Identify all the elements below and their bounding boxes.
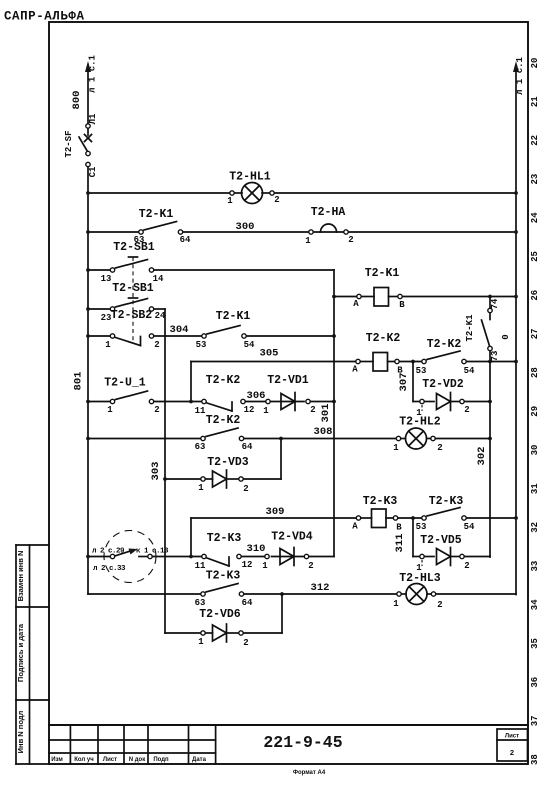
svg-text:2: 2 bbox=[274, 195, 279, 205]
contact T2-K2 11-12 (break) bbox=[195, 374, 255, 416]
svg-text:2: 2 bbox=[464, 405, 469, 415]
svg-text:301: 301 bbox=[320, 404, 332, 423]
row: button T2-SB2 1-2, wire 304, contact T2-K1 53-54 bbox=[86, 334, 336, 338]
svg-text:2: 2 bbox=[154, 340, 159, 350]
svg-text:33: 33 bbox=[530, 561, 540, 572]
svg-text:T2-K2: T2-K2 bbox=[427, 338, 462, 351]
svg-text:T2-HL1: T2-HL1 bbox=[229, 171, 271, 184]
svg-text:23: 23 bbox=[530, 174, 540, 185]
svg-text:312: 312 bbox=[311, 582, 330, 594]
svg-text:37: 37 bbox=[530, 715, 540, 726]
left margin attribute column boxes bbox=[16, 545, 49, 764]
svg-text:A: A bbox=[352, 365, 358, 375]
svg-text:T2-HA: T2-HA bbox=[311, 206, 346, 219]
title block grid bbox=[49, 725, 528, 764]
svg-text:74: 74 bbox=[490, 298, 500, 309]
svg-text:T2-K1: T2-K1 bbox=[465, 314, 475, 342]
svg-text:29: 29 bbox=[530, 406, 540, 417]
svg-text:B: B bbox=[396, 523, 402, 533]
svg-text:1: 1 bbox=[305, 236, 311, 246]
svg-text:306: 306 bbox=[247, 390, 266, 402]
lamp T2-HL3 bbox=[393, 572, 442, 610]
connector pin к 1 с.13 bbox=[148, 554, 152, 558]
svg-text:л 2 с.33: л 2 с.33 bbox=[93, 565, 126, 573]
svg-text:1: 1 bbox=[393, 599, 399, 609]
svg-text:64: 64 bbox=[180, 235, 191, 245]
row: contact T2-K2 63-64, wire 308, lamp T2-HL2 bbox=[86, 437, 490, 441]
svg-text:35: 35 bbox=[530, 638, 540, 649]
node 301 vertical wire bbox=[309, 270, 336, 557]
svg-text:T2-VD4: T2-VD4 bbox=[271, 531, 313, 544]
contact T2-K2 63-64 bbox=[195, 414, 253, 452]
wire 307 vertical bbox=[398, 362, 413, 402]
row: diode T2-VD3 bypass bbox=[165, 439, 281, 480]
svg-text:800: 800 bbox=[71, 91, 83, 110]
row: relay coil T2-K2 with wire 305 and contact T2-K2 53-54 bbox=[191, 360, 518, 364]
svg-text:54: 54 bbox=[464, 522, 475, 532]
svg-text:л 1 с.1: л 1 с.1 bbox=[88, 55, 98, 93]
svg-text:T2-U_1: T2-U_1 bbox=[104, 377, 146, 390]
contact T2-K2 53-54 bbox=[416, 338, 475, 376]
svg-text:305: 305 bbox=[260, 348, 279, 360]
relay coil T2-K3 bbox=[352, 495, 402, 533]
svg-text:1: 1 bbox=[105, 340, 111, 350]
svg-text:34: 34 bbox=[530, 599, 540, 610]
contact T2-K1 53-54 bbox=[196, 310, 255, 350]
svg-text:A: A bbox=[352, 522, 358, 532]
svg-text:T2-SB1: T2-SB1 bbox=[113, 241, 155, 254]
svg-text:11: 11 bbox=[195, 406, 206, 416]
svg-text:11: 11 bbox=[195, 561, 206, 571]
svg-text:302: 302 bbox=[476, 447, 488, 466]
svg-text:38: 38 bbox=[530, 754, 540, 765]
sheet box Лист 2 bbox=[497, 729, 528, 761]
svg-text:T2-K3: T2-K3 bbox=[429, 495, 464, 508]
svg-text:T2-VD1: T2-VD1 bbox=[267, 374, 309, 387]
left rail wire 801 bbox=[87, 167, 89, 594]
svg-text:T2-SB2: T2-SB2 bbox=[111, 309, 153, 322]
contact T2-U_1 bbox=[104, 377, 159, 416]
row: lamp T2-HL1 bbox=[86, 191, 518, 195]
svg-text:Взамен инв N: Взамен инв N bbox=[16, 551, 25, 602]
svg-text:12: 12 bbox=[242, 560, 253, 570]
horn T2-HA bbox=[305, 206, 353, 246]
svg-text:1: 1 bbox=[198, 483, 204, 493]
row: diode T2-VD5 bbox=[413, 556, 490, 559]
diode T2-VD5 bbox=[416, 534, 469, 573]
svg-text:Подпись и дата: Подпись и дата bbox=[16, 623, 25, 682]
svg-text:N док: N док bbox=[129, 757, 145, 763]
svg-text:24: 24 bbox=[530, 212, 540, 223]
svg-text:2: 2 bbox=[510, 748, 514, 757]
svg-text:53: 53 bbox=[416, 366, 427, 376]
row: diode T2-VD2 bbox=[413, 401, 490, 403]
lamp T2-HL2 bbox=[393, 416, 442, 454]
contact T2-K1 73-74 (vertical) bbox=[465, 297, 500, 362]
row: contact T2-K1 63-64, wire 300, horn T2-HA bbox=[86, 230, 518, 234]
svg-text:25: 25 bbox=[530, 251, 540, 262]
breaker T2-SF on left rail bbox=[64, 113, 98, 177]
svg-text:T2-K2: T2-K2 bbox=[366, 332, 401, 345]
svg-text:2: 2 bbox=[310, 405, 315, 415]
svg-text:21: 21 bbox=[530, 96, 540, 107]
row: button T2-SB1 13-14 bbox=[86, 268, 334, 272]
svg-text:2: 2 bbox=[464, 561, 469, 571]
svg-text:T2-VD2: T2-VD2 bbox=[422, 378, 464, 391]
svg-text:1: 1 bbox=[227, 196, 233, 206]
svg-text:2: 2 bbox=[243, 638, 248, 648]
button contact T2-SB2 1-2 (break) bbox=[105, 309, 159, 350]
svg-text:303: 303 bbox=[150, 462, 162, 481]
row: contact T2-U_1, contact T2-K2 11-12, wire 306, diode T2-VD1 bbox=[86, 400, 334, 404]
svg-text:36: 36 bbox=[530, 677, 540, 688]
svg-text:Изм: Изм bbox=[51, 757, 63, 763]
svg-text:T2-VD5: T2-VD5 bbox=[420, 534, 462, 547]
svg-text:23: 23 bbox=[101, 313, 112, 323]
title block column labels bbox=[51, 757, 206, 763]
svg-text:1: 1 bbox=[198, 637, 204, 647]
row: relay coil T2-K1 bbox=[334, 295, 518, 299]
svg-text:Подп: Подп bbox=[153, 757, 169, 763]
row: contact T2-K3 63-64, wire 312, lamp T2-HL3 bbox=[88, 592, 516, 596]
contact T2-K3 11-12 (break) bbox=[195, 532, 253, 571]
svg-text:2: 2 bbox=[243, 484, 248, 494]
connector pin л 2 с.29 bbox=[110, 554, 114, 558]
svg-text:T2-K1: T2-K1 bbox=[139, 208, 174, 221]
svg-text:к 1 с.13: к 1 с.13 bbox=[136, 548, 169, 556]
svg-text:2: 2 bbox=[437, 443, 442, 453]
svg-text:л 1 с.1: л 1 с.1 bbox=[515, 57, 525, 95]
relay coil T2-K1 bbox=[353, 267, 405, 310]
svg-text:T2-K1: T2-K1 bbox=[365, 267, 400, 280]
svg-text:54: 54 bbox=[244, 340, 255, 350]
pushbutton actuator link (dashed) bbox=[129, 257, 138, 341]
contact T2-K1 63-64 bbox=[134, 208, 191, 245]
svg-text:63: 63 bbox=[195, 598, 206, 608]
right supply feeder arrow to л 1 с.1 bbox=[513, 61, 519, 595]
svg-text:T2-HL3: T2-HL3 bbox=[399, 572, 441, 585]
svg-text:A: A bbox=[353, 299, 359, 309]
button contact T2-SB1 13-14 bbox=[101, 241, 164, 284]
off-page connector (dashed circle) bbox=[104, 531, 156, 583]
svg-text:20: 20 bbox=[530, 58, 540, 69]
wire 303 vertical bbox=[150, 309, 167, 633]
svg-text:B: B bbox=[399, 300, 405, 310]
svg-text:26: 26 bbox=[530, 290, 540, 301]
svg-text:T2-K2: T2-K2 bbox=[206, 414, 241, 427]
svg-text:64: 64 bbox=[242, 442, 253, 452]
svg-text:13: 13 bbox=[101, 274, 112, 284]
diode T2-VD4 bbox=[262, 531, 313, 572]
svg-text:30: 30 bbox=[530, 445, 540, 456]
row: connector terminals and arrow, contact T2-K3 11-12, wire 310, diode T2-VD4 bbox=[86, 549, 304, 559]
wire 309 vertical drop bbox=[190, 518, 192, 557]
connector labels bbox=[92, 548, 169, 574]
svg-text:Лист: Лист bbox=[505, 734, 519, 740]
svg-text:T2-VD6: T2-VD6 bbox=[199, 608, 241, 621]
svg-text:304: 304 bbox=[170, 324, 189, 336]
svg-text:307: 307 bbox=[398, 373, 410, 392]
svg-text:1: 1 bbox=[393, 443, 399, 453]
svg-text:311: 311 bbox=[394, 534, 406, 553]
svg-text:Лист: Лист bbox=[103, 757, 117, 763]
svg-text:32: 32 bbox=[530, 522, 540, 533]
diode T2-VD6 bbox=[198, 608, 248, 648]
row: button T2-SB1 23-24 bbox=[86, 307, 165, 311]
svg-text:Формат А4: Формат А4 bbox=[293, 770, 326, 776]
diode T2-VD3 bbox=[198, 456, 248, 494]
wire 302 vertical with junctions bbox=[488, 351, 492, 557]
svg-text:53: 53 bbox=[196, 340, 207, 350]
relay coil T2-K2 bbox=[352, 332, 403, 376]
svg-text:53: 53 bbox=[416, 522, 427, 532]
contact T2-K3 53-54 bbox=[416, 495, 475, 532]
svg-text:63: 63 bbox=[195, 442, 206, 452]
row: diode T2-VD6 bypass bbox=[165, 594, 282, 633]
svg-text:31: 31 bbox=[530, 483, 540, 494]
svg-text:л 2 с.29: л 2 с.29 bbox=[92, 548, 125, 556]
svg-text:Л1: Л1 bbox=[88, 113, 98, 124]
svg-text:27: 27 bbox=[530, 328, 540, 339]
button contact T2-SB1 23-24 bbox=[101, 282, 166, 323]
svg-text:Инв N подл: Инв N подл bbox=[16, 710, 25, 753]
svg-text:28: 28 bbox=[530, 367, 540, 378]
svg-text:22: 22 bbox=[530, 135, 540, 146]
svg-text:2: 2 bbox=[308, 561, 313, 571]
svg-text:310: 310 bbox=[247, 543, 266, 555]
wire 311 vertical bbox=[394, 518, 413, 557]
diode T2-VD2 bbox=[416, 378, 469, 418]
svg-text:Дата: Дата bbox=[192, 757, 207, 763]
row: wire 309, relay coil T2-K3, contact T2-K3 53-54 bbox=[191, 516, 518, 520]
left supply feeder arrow to л 1 с.1 bbox=[85, 61, 91, 124]
svg-text:Кол уч: Кол уч bbox=[74, 757, 94, 763]
svg-text:T2-K1: T2-K1 bbox=[216, 310, 251, 323]
svg-text:73: 73 bbox=[490, 351, 500, 362]
svg-text:1: 1 bbox=[262, 561, 268, 571]
svg-text:T2-K2: T2-K2 bbox=[206, 374, 241, 387]
svg-text:308: 308 bbox=[314, 426, 333, 438]
svg-text:T2-VD3: T2-VD3 bbox=[207, 456, 249, 469]
svg-text:T2-SF: T2-SF bbox=[64, 130, 74, 157]
svg-text:309: 309 bbox=[266, 506, 285, 518]
svg-text:801: 801 bbox=[73, 372, 85, 391]
svg-text:54: 54 bbox=[464, 366, 475, 376]
svg-text:64: 64 bbox=[242, 598, 253, 608]
svg-text:1: 1 bbox=[263, 406, 269, 416]
svg-text:2: 2 bbox=[154, 405, 159, 415]
svg-text:T2-K3: T2-K3 bbox=[207, 532, 242, 545]
svg-text:T2-K3: T2-K3 bbox=[363, 495, 398, 508]
svg-text:2: 2 bbox=[437, 600, 442, 610]
svg-text:12: 12 bbox=[244, 405, 255, 415]
svg-text:T2-K3: T2-K3 bbox=[206, 570, 241, 583]
svg-text:300: 300 bbox=[236, 221, 255, 233]
svg-text:14: 14 bbox=[153, 274, 164, 284]
right margin zone numbers 20-38 bbox=[530, 58, 540, 765]
svg-text:2: 2 bbox=[348, 235, 353, 245]
lamp T2-HL1 bbox=[227, 171, 279, 207]
svg-text:221-9-45: 221-9-45 bbox=[263, 733, 342, 752]
diode T2-VD1 bbox=[263, 374, 315, 416]
svg-text:0: 0 bbox=[501, 334, 511, 339]
svg-text:T2-HL2: T2-HL2 bbox=[399, 416, 441, 429]
contact T2-K3 63-64 bbox=[195, 570, 253, 609]
svg-text:1: 1 bbox=[107, 405, 113, 415]
svg-text:С1: С1 bbox=[88, 166, 98, 177]
wire 305 vertical drop bbox=[190, 362, 192, 402]
